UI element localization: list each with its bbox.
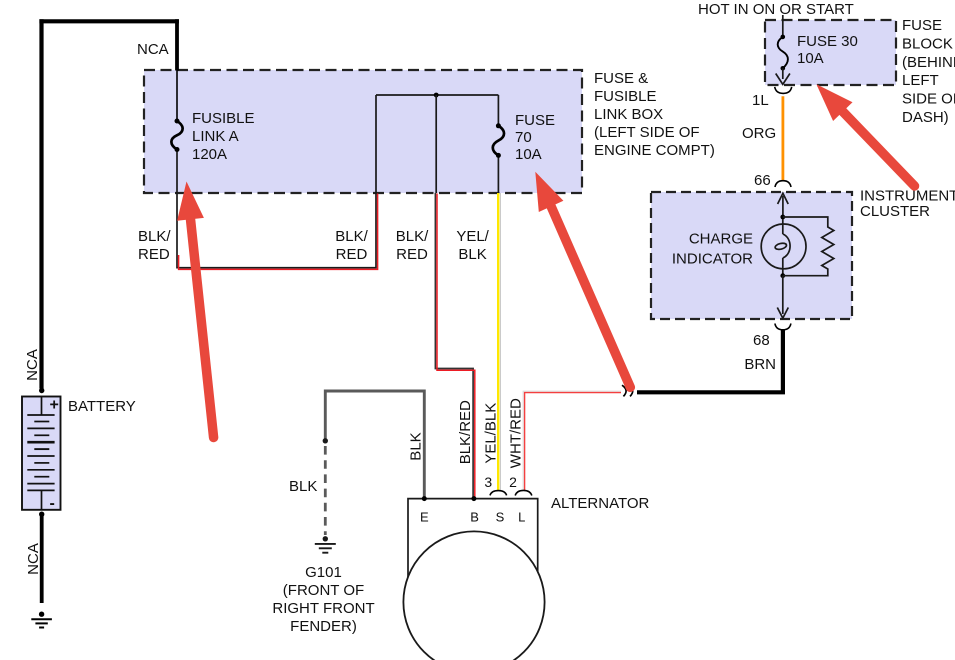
ground G101 xyxy=(315,536,336,553)
wire BLK/RED to alternator B (red companion) xyxy=(437,194,475,499)
wire arrow into cluster (up) xyxy=(778,193,789,217)
svg-text:YEL/: YEL/ xyxy=(456,228,489,245)
svg-text:SIDE OF: SIDE OF xyxy=(902,91,955,108)
connector 2 half (above alternator L) xyxy=(515,490,532,495)
svg-text:(LEFT SIDE OF: (LEFT SIDE OF xyxy=(594,124,700,141)
svg-text:E: E xyxy=(420,510,429,525)
wire BLK dashed to G101 xyxy=(324,446,327,535)
wire BLK/RED loop red companion xyxy=(179,194,378,270)
svg-text:BLK: BLK xyxy=(458,246,486,263)
svg-text:66: 66 xyxy=(754,172,771,189)
wire thin black below fuse 70 xyxy=(497,155,499,193)
wire YEL/BLK gray stripe xyxy=(499,193,501,490)
wire NCA left vertical to battery (thick black) xyxy=(39,19,43,388)
node dot on BLK wire xyxy=(323,438,328,443)
wire arrow out of cluster (down) xyxy=(777,276,788,319)
svg-text:WHT/RED: WHT/RED xyxy=(508,398,525,468)
svg-text:NCA: NCA xyxy=(25,543,42,575)
fusible link A symbol xyxy=(171,119,182,153)
svg-text:2: 2 xyxy=(509,474,517,490)
svg-text:FUSE 30: FUSE 30 xyxy=(797,33,858,50)
connector 3 half (above alternator S) xyxy=(490,491,507,496)
wire HOT IN stub above fuse block xyxy=(782,15,784,36)
node alternator B junction xyxy=(471,496,476,501)
svg-text:BLOCK: BLOCK xyxy=(902,36,953,53)
instrument cluster box (dashed) xyxy=(651,192,852,319)
annotation arrow 1 (to fusible link A) xyxy=(177,182,214,438)
svg-text:G101: G101 xyxy=(305,564,342,581)
svg-text:FUSE &: FUSE & xyxy=(594,70,648,87)
svg-text:NCA: NCA xyxy=(24,349,41,381)
fuse F30 symbol xyxy=(778,35,788,71)
wire NCA top horizontal (thick black) xyxy=(39,19,179,23)
svg-text:ENGINE COMPT): ENGINE COMPT) xyxy=(594,142,715,159)
svg-text:FUSE: FUSE xyxy=(902,17,942,34)
svg-text:ORG: ORG xyxy=(742,125,776,142)
wire YEL/BLK yellow to alternator S xyxy=(497,193,499,491)
svg-text:DASH): DASH) xyxy=(902,109,949,126)
svg-text:CHARGE: CHARGE xyxy=(689,231,753,248)
connector 66 half (above cluster) xyxy=(775,181,791,187)
svg-text:+: + xyxy=(50,397,59,414)
resistor (cluster, parallel with lamp) xyxy=(783,217,834,276)
splice connector )) xyxy=(622,385,633,396)
svg-text:(FRONT OF: (FRONT OF xyxy=(283,582,364,599)
svg-text:10A: 10A xyxy=(515,146,542,163)
wire thin black above fusible link inside box xyxy=(176,70,178,121)
lamp charge indicator xyxy=(761,219,806,276)
svg-text:BRN: BRN xyxy=(744,356,776,373)
wire WHT/RED red part xyxy=(525,393,621,490)
svg-text:10A: 10A xyxy=(797,50,824,67)
svg-text:LINK BOX: LINK BOX xyxy=(594,106,663,123)
svg-text:L: L xyxy=(518,510,525,525)
svg-text:INSTRUMENT: INSTRUMENT xyxy=(860,188,955,205)
svg-text:INDICATOR: INDICATOR xyxy=(672,251,753,268)
svg-text:68: 68 xyxy=(753,332,770,349)
svg-text:RED: RED xyxy=(138,246,170,263)
svg-text:BLK/: BLK/ xyxy=(335,228,368,245)
node battery negative dot xyxy=(39,512,44,517)
ground battery negative xyxy=(31,612,52,628)
wire ORG orange xyxy=(782,96,785,180)
wire WHT/RED white part xyxy=(523,391,621,490)
alternator body xyxy=(403,499,544,660)
svg-text:1L: 1L xyxy=(752,92,769,109)
svg-text:RED: RED xyxy=(396,246,428,263)
fuse block box (dashed) xyxy=(765,20,896,85)
svg-text:LEFT: LEFT xyxy=(902,72,939,89)
svg-text:BLK/: BLK/ xyxy=(138,228,171,245)
wire NCA drop into fuse box (thick black) xyxy=(175,19,179,70)
battery symbol xyxy=(22,397,61,510)
node junction on bus xyxy=(434,93,439,98)
wire NCA battery negative (thick black) xyxy=(40,514,44,603)
annotation arrow 3 (to fuse block) xyxy=(816,84,914,186)
node cluster bottom junction xyxy=(780,273,785,278)
svg-text:ALTERNATOR: ALTERNATOR xyxy=(551,495,650,512)
svg-text:HOT IN ON OR START: HOT IN ON OR START xyxy=(698,1,854,18)
wire BLK/RED loop from fusible link to bus (black part) xyxy=(177,95,376,268)
svg-text:B: B xyxy=(470,510,479,525)
svg-text:BATTERY: BATTERY xyxy=(68,398,136,415)
svg-text:120A: 120A xyxy=(192,146,227,163)
svg-text:BLK/: BLK/ xyxy=(396,228,429,245)
svg-text:FUSIBLE: FUSIBLE xyxy=(594,88,657,105)
svg-text:RIGHT FRONT: RIGHT FRONT xyxy=(272,600,374,617)
svg-text:FENDER): FENDER) xyxy=(290,618,357,635)
svg-text:RED: RED xyxy=(336,246,368,263)
wire thin black above fuse 70 xyxy=(497,95,499,126)
wire BLK/RED to alternator B (black part) xyxy=(435,193,473,498)
svg-text:CLUSTER: CLUSTER xyxy=(860,203,930,220)
svg-text:LINK A: LINK A xyxy=(192,128,239,145)
connector 1L half (below fuse block) xyxy=(775,87,792,94)
fuse & fusible link box (dashed) xyxy=(144,70,582,193)
svg-text:FUSIBLE: FUSIBLE xyxy=(192,110,255,127)
wire arrow out of fuse block xyxy=(776,68,790,84)
node alternator E junction xyxy=(422,496,427,501)
svg-text:YEL/BLK: YEL/BLK xyxy=(483,403,500,464)
svg-text:70: 70 xyxy=(515,129,532,146)
node battery positive dot xyxy=(39,388,44,393)
wire BRN thick black from cluster to splice xyxy=(637,331,783,393)
svg-text:NCA: NCA xyxy=(137,41,169,58)
svg-text:FUSE: FUSE xyxy=(515,112,555,129)
connector 68 half (below cluster) xyxy=(775,324,791,330)
node cluster top junction xyxy=(780,215,785,220)
svg-text:(BEHIND: (BEHIND xyxy=(902,54,955,71)
wire bus inside fuse box xyxy=(376,94,498,96)
wire BLK/RED branch down from bus inside box xyxy=(435,95,437,193)
svg-text:BLK: BLK xyxy=(408,432,425,460)
svg-text:-: - xyxy=(50,495,55,512)
svg-text:S: S xyxy=(496,510,505,525)
svg-text:3: 3 xyxy=(484,474,492,490)
annotation arrow 2 (to fuse 70) xyxy=(535,172,630,387)
fuse F70 symbol xyxy=(493,123,504,158)
svg-text:BLK/RED: BLK/RED xyxy=(457,400,474,464)
svg-text:BLK: BLK xyxy=(289,478,317,495)
wire BLK gray from alternator E xyxy=(325,391,424,498)
